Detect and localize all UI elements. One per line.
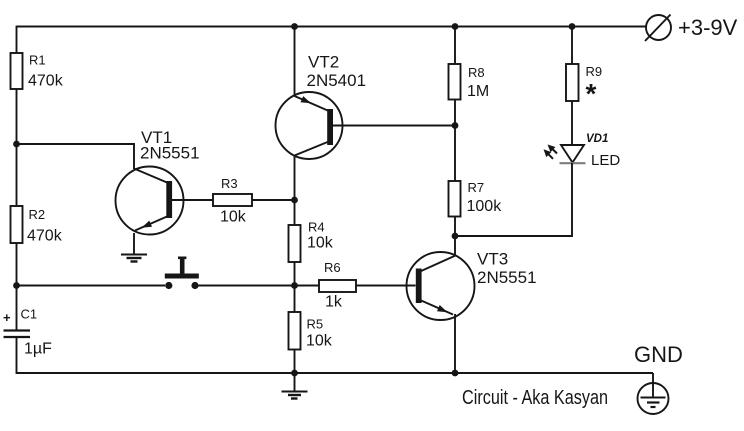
wire node D to R5 (294, 286, 296, 313)
transistor VT2 body (276, 92, 343, 159)
wire R6 to VT3 base (356, 285, 416, 287)
wire R9 to LED (571, 101, 573, 145)
bottom rail (295, 372, 654, 374)
node E (VT2 base / R8 / R7) (452, 122, 459, 129)
node G (R7/VT3/LED) (452, 233, 459, 240)
wire button to node D (199, 285, 295, 287)
svg-text:R7: R7 (468, 180, 485, 195)
resistor R7 (449, 180, 503, 217)
push button bridge and stem (165, 257, 199, 279)
LED VD1 (560, 133, 621, 169)
svg-text:R5: R5 (307, 317, 324, 332)
transistor VT2 emitter diagonal (295, 96, 331, 112)
ground VT1 (121, 255, 147, 262)
transistor VT1 base bar (166, 181, 172, 218)
wire button row left (17, 285, 166, 287)
svg-text:1k: 1k (325, 294, 343, 311)
node top rail / R9 (569, 23, 576, 30)
transistor VT2 emitter arrow (PNP) (301, 96, 312, 103)
capacitor C1 (3, 307, 52, 358)
wire R8 to node E (454, 100, 456, 126)
transistor VT2 collector diagonal (295, 141, 331, 156)
resistor R4 (289, 220, 334, 263)
svg-text:GND: GND (634, 342, 683, 367)
transistor VT3 base bar (416, 269, 422, 304)
wire VT1 base to R3 (172, 199, 214, 201)
svg-text:1µF: 1µF (24, 341, 52, 358)
node top rail / R8 (452, 23, 459, 30)
resistor R5 (289, 312, 333, 350)
wire R5 to bottom rail (294, 350, 296, 374)
svg-text:2N5551: 2N5551 (477, 268, 537, 287)
svg-text:+: + (3, 310, 11, 325)
svg-text:10k: 10k (306, 333, 333, 350)
svg-text:R1: R1 (29, 53, 46, 68)
svg-text:R3: R3 (221, 176, 238, 191)
transistor VT1 emitter diagonal (135, 217, 167, 231)
supply terminal +3-9V (645, 15, 738, 42)
wire left rail upper (16, 26, 18, 53)
wire rail to R9 (571, 27, 573, 65)
svg-text:VD1: VD1 (586, 133, 608, 145)
wire top rail (17, 26, 647, 28)
transistor VT3 emitter arrow (437, 305, 448, 312)
svg-text:R6: R6 (324, 260, 341, 275)
svg-text:R4: R4 (308, 220, 325, 235)
wire C1 to bottom rail (17, 337, 295, 373)
svg-text:Circuit - Aka Kasyan: Circuit - Aka Kasyan (462, 387, 608, 409)
wire VT3 emitter to bottom rail (454, 314, 456, 373)
LED light arrow 1 (548, 145, 558, 154)
node F (bottom rail / R5 / ground) (291, 370, 298, 377)
wire VT2 collector to node C (294, 155, 296, 200)
resistor R3 (213, 176, 252, 226)
wire VT2 emitter to top rail (294, 27, 296, 97)
node H (bottom rail / VT3 emitter) (452, 370, 459, 377)
transistor VT3 body (407, 252, 475, 320)
node A (R1/R2/VT1 junction) (13, 141, 20, 148)
wire R2 to button rail (16, 243, 18, 286)
svg-text:2N5401: 2N5401 (307, 71, 367, 90)
wire left rail mid (16, 144, 18, 206)
wire node F to middle ground (294, 373, 296, 391)
wire VT1 emitter to ground (133, 233, 135, 254)
transistor VT1 emitter arrow (142, 221, 153, 228)
svg-text:R8: R8 (468, 65, 485, 80)
svg-text:470k: 470k (27, 228, 63, 245)
svg-text:LED: LED (591, 152, 620, 169)
wire R3 to node C (252, 199, 295, 201)
resistor R2 (11, 206, 63, 245)
svg-text:R2: R2 (29, 207, 46, 222)
wire R7 to node G (454, 217, 456, 237)
GND terminal symbol (638, 383, 669, 414)
svg-text:1M: 1M (467, 83, 489, 100)
push button contact left (165, 282, 172, 289)
wire node E to R7 (454, 126, 456, 182)
svg-text:C1: C1 (21, 307, 38, 322)
wire node C to R4 (294, 200, 296, 225)
transistor VT1 body (116, 167, 184, 235)
node D (button/R4/R5/R6) (291, 282, 298, 289)
ground middle (282, 392, 308, 399)
resistor R6 (319, 260, 356, 311)
svg-text:VT3: VT3 (477, 250, 508, 269)
transistor VT1 collector diagonal (134, 169, 167, 183)
svg-text:*: * (586, 78, 597, 109)
svg-text:R9: R9 (586, 64, 603, 79)
svg-text:10k: 10k (220, 209, 247, 226)
svg-text:470k: 470k (28, 73, 64, 90)
wire node D to R6 (295, 285, 320, 287)
node C (R3/VT2 collector/R4) (291, 197, 298, 204)
wire VT3 collector to node G (454, 236, 456, 256)
wire R1 to node A (16, 89, 18, 144)
push button contact right (191, 282, 198, 289)
node top rail / VT2 (291, 23, 298, 30)
svg-text:100k: 100k (467, 198, 503, 215)
wire LED to node G (455, 163, 572, 236)
svg-text:VT2: VT2 (308, 53, 339, 72)
transistor VT2 base bar (327, 109, 333, 145)
svg-text:+3-9V: +3-9V (678, 15, 738, 40)
wire rail to R8 (454, 27, 456, 65)
wire R4 to node D (294, 262, 296, 286)
wire bottom rail to GND terminal (652, 373, 654, 397)
svg-text:10k: 10k (307, 235, 334, 252)
wire node A to VT1 collector (17, 144, 135, 169)
svg-text:2N5551: 2N5551 (140, 144, 200, 163)
resistor R9 (566, 64, 602, 109)
resistor R8 (449, 64, 490, 100)
resistor R1 (11, 53, 64, 90)
transistor VT3 collector diagonal (420, 256, 456, 272)
transistor VT3 emitter diagonal (420, 300, 453, 315)
LED light arrow 2 (544, 149, 554, 159)
wire left rail lower (16, 286, 18, 331)
node B (left rail / button wire) (13, 282, 20, 289)
wire VT2 base to node E (333, 125, 455, 127)
